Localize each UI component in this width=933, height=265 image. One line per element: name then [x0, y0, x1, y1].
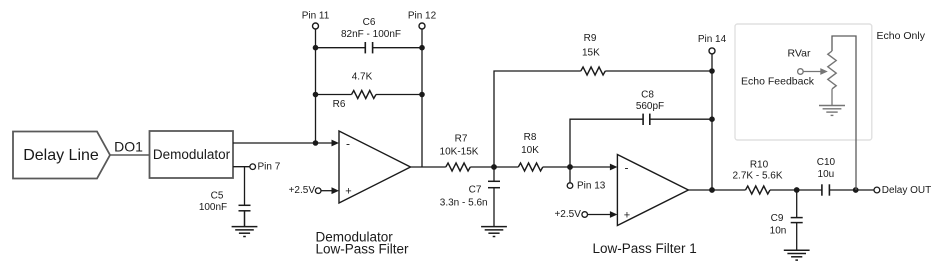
- node R6 left: [313, 92, 319, 98]
- node junction R8/C8/Pin13: [567, 164, 573, 170]
- wire demodulator lower output to Pin 7: [233, 166, 250, 168]
- svg-text:C7: C7: [469, 185, 482, 196]
- resistor R6: [316, 91, 423, 99]
- op-amp U1 Demodulator Low-Pass Filter: [332, 131, 411, 203]
- svg-text:Low-Pass Filter 1: Low-Pass Filter 1: [593, 241, 697, 256]
- pin terminal Pin 12: [419, 23, 425, 29]
- node C6 right: [419, 45, 425, 51]
- svg-text:Pin 12: Pin 12: [408, 11, 437, 22]
- wire DO1: delay line to demodulator: [110, 154, 150, 156]
- svg-text:Demodulator: Demodulator: [153, 147, 231, 162]
- resistor R10: [746, 186, 797, 194]
- node R6 right: [419, 92, 425, 98]
- pin terminal Pin 13: [567, 167, 606, 192]
- svg-text:10K-15K: 10K-15K: [440, 147, 479, 158]
- node R10/C9/C10 junction: [794, 187, 800, 193]
- svg-text:R6: R6: [333, 99, 346, 110]
- svg-text:82nF - 100nF: 82nF - 100nF: [341, 29, 401, 40]
- capacitor C10: [797, 184, 856, 195]
- delay line block: [13, 132, 110, 179]
- pin terminal Pin 14: [698, 34, 727, 190]
- svg-text:10u: 10u: [818, 169, 835, 180]
- potentiometer RVar: [828, 51, 836, 106]
- power terminal +2.5V (U1): [289, 185, 333, 196]
- op-amp U2 Low-Pass Filter 1: [610, 155, 689, 226]
- ground (C9): [784, 250, 810, 260]
- svg-text:C10: C10: [817, 157, 836, 168]
- pin terminal Pin 11: [313, 23, 319, 29]
- demodulator block: [150, 131, 234, 178]
- ground (C5): [232, 227, 258, 237]
- svg-text:Pin 13: Pin 13: [577, 181, 606, 192]
- capacitor C8 feedback: [570, 114, 712, 167]
- wire echo feedback vertical to output node: [832, 36, 856, 190]
- resistor R9: [581, 67, 712, 75]
- svg-text:C9: C9: [771, 213, 784, 224]
- svg-text:+2.5V: +2.5V: [554, 209, 581, 220]
- svg-text:Delay OUT: Delay OUT: [882, 185, 931, 196]
- power terminal +2.5V (U2): [554, 209, 611, 220]
- wire Pin 11 vertical: [315, 29, 317, 143]
- node junction demod/pin11: [313, 140, 319, 146]
- svg-text:4.7K: 4.7K: [352, 72, 373, 83]
- svg-text:C6: C6: [363, 17, 376, 28]
- svg-text:R10: R10: [750, 159, 769, 170]
- ground (RVar, grey): [819, 106, 845, 116]
- svg-text:R9: R9: [584, 33, 597, 44]
- svg-text:100nF: 100nF: [199, 202, 227, 213]
- svg-text:C8: C8: [641, 90, 654, 101]
- wire junction to Delay OUT: [856, 189, 874, 191]
- node R9/Pin14 junction: [709, 68, 715, 74]
- terminal Delay OUT: [874, 187, 880, 193]
- svg-text:Low-Pass Filter: Low-Pass Filter: [316, 242, 410, 257]
- svg-text:DO1: DO1: [114, 139, 143, 155]
- resistor R8: [494, 163, 570, 171]
- svg-text:+2.5V: +2.5V: [289, 185, 316, 196]
- svg-text:R7: R7: [455, 134, 468, 145]
- svg-text:C5: C5: [211, 191, 224, 202]
- svg-text:15K: 15K: [582, 48, 600, 59]
- svg-text:Delay Line: Delay Line: [23, 147, 99, 164]
- pin terminal Pin 7: [250, 164, 256, 170]
- ground (C7): [481, 227, 507, 237]
- capacitor C5: [239, 205, 251, 226]
- svg-text:+: +: [624, 209, 630, 221]
- node C8 right: [709, 116, 715, 122]
- svg-text:Echo Only: Echo Only: [877, 30, 926, 42]
- node U2 output junction: [709, 187, 715, 193]
- svg-text:10n: 10n: [770, 225, 787, 236]
- node C6 left: [313, 45, 319, 51]
- capacitor C9: [791, 190, 803, 250]
- wire C5 branch: [244, 167, 246, 205]
- svg-text:R8: R8: [524, 132, 537, 143]
- resistor R7: [446, 163, 494, 171]
- svg-text:Echo Feedback: Echo Feedback: [741, 76, 815, 88]
- potentiometer wiper terminal: [798, 68, 828, 75]
- svg-text:560pF: 560pF: [636, 101, 664, 112]
- wire node A up to R9: [494, 71, 581, 167]
- capacitor C7: [488, 167, 500, 227]
- svg-text:10K: 10K: [521, 145, 539, 156]
- svg-text:Pin 7: Pin 7: [258, 162, 281, 173]
- capacitor C6: [316, 42, 423, 53]
- svg-text:3.3n - 5.6n: 3.3n - 5.6n: [440, 198, 488, 209]
- echo only enclosure box: [735, 24, 872, 140]
- svg-text:-: -: [625, 161, 629, 175]
- svg-text:RVar: RVar: [788, 48, 811, 60]
- wire op-amp U2 output: [688, 189, 745, 191]
- wire op-amp U1 output: [411, 166, 446, 168]
- svg-text:-: -: [346, 137, 350, 151]
- node C10/echo junction: [853, 187, 859, 193]
- svg-text:Pin 11: Pin 11: [302, 11, 330, 22]
- svg-text:2.7K - 5.6K: 2.7K - 5.6K: [732, 171, 782, 182]
- svg-text:+: +: [345, 186, 351, 198]
- wire junction to op-amp U2 inverting input: [570, 166, 614, 168]
- node A junction R7/C7/R8/R9: [491, 164, 497, 170]
- svg-text:Pin 14: Pin 14: [698, 34, 727, 45]
- wire demodulator output to op-amp inverting input: [233, 142, 336, 144]
- wire Pin 12 vertical to op-amp output line: [421, 29, 423, 167]
